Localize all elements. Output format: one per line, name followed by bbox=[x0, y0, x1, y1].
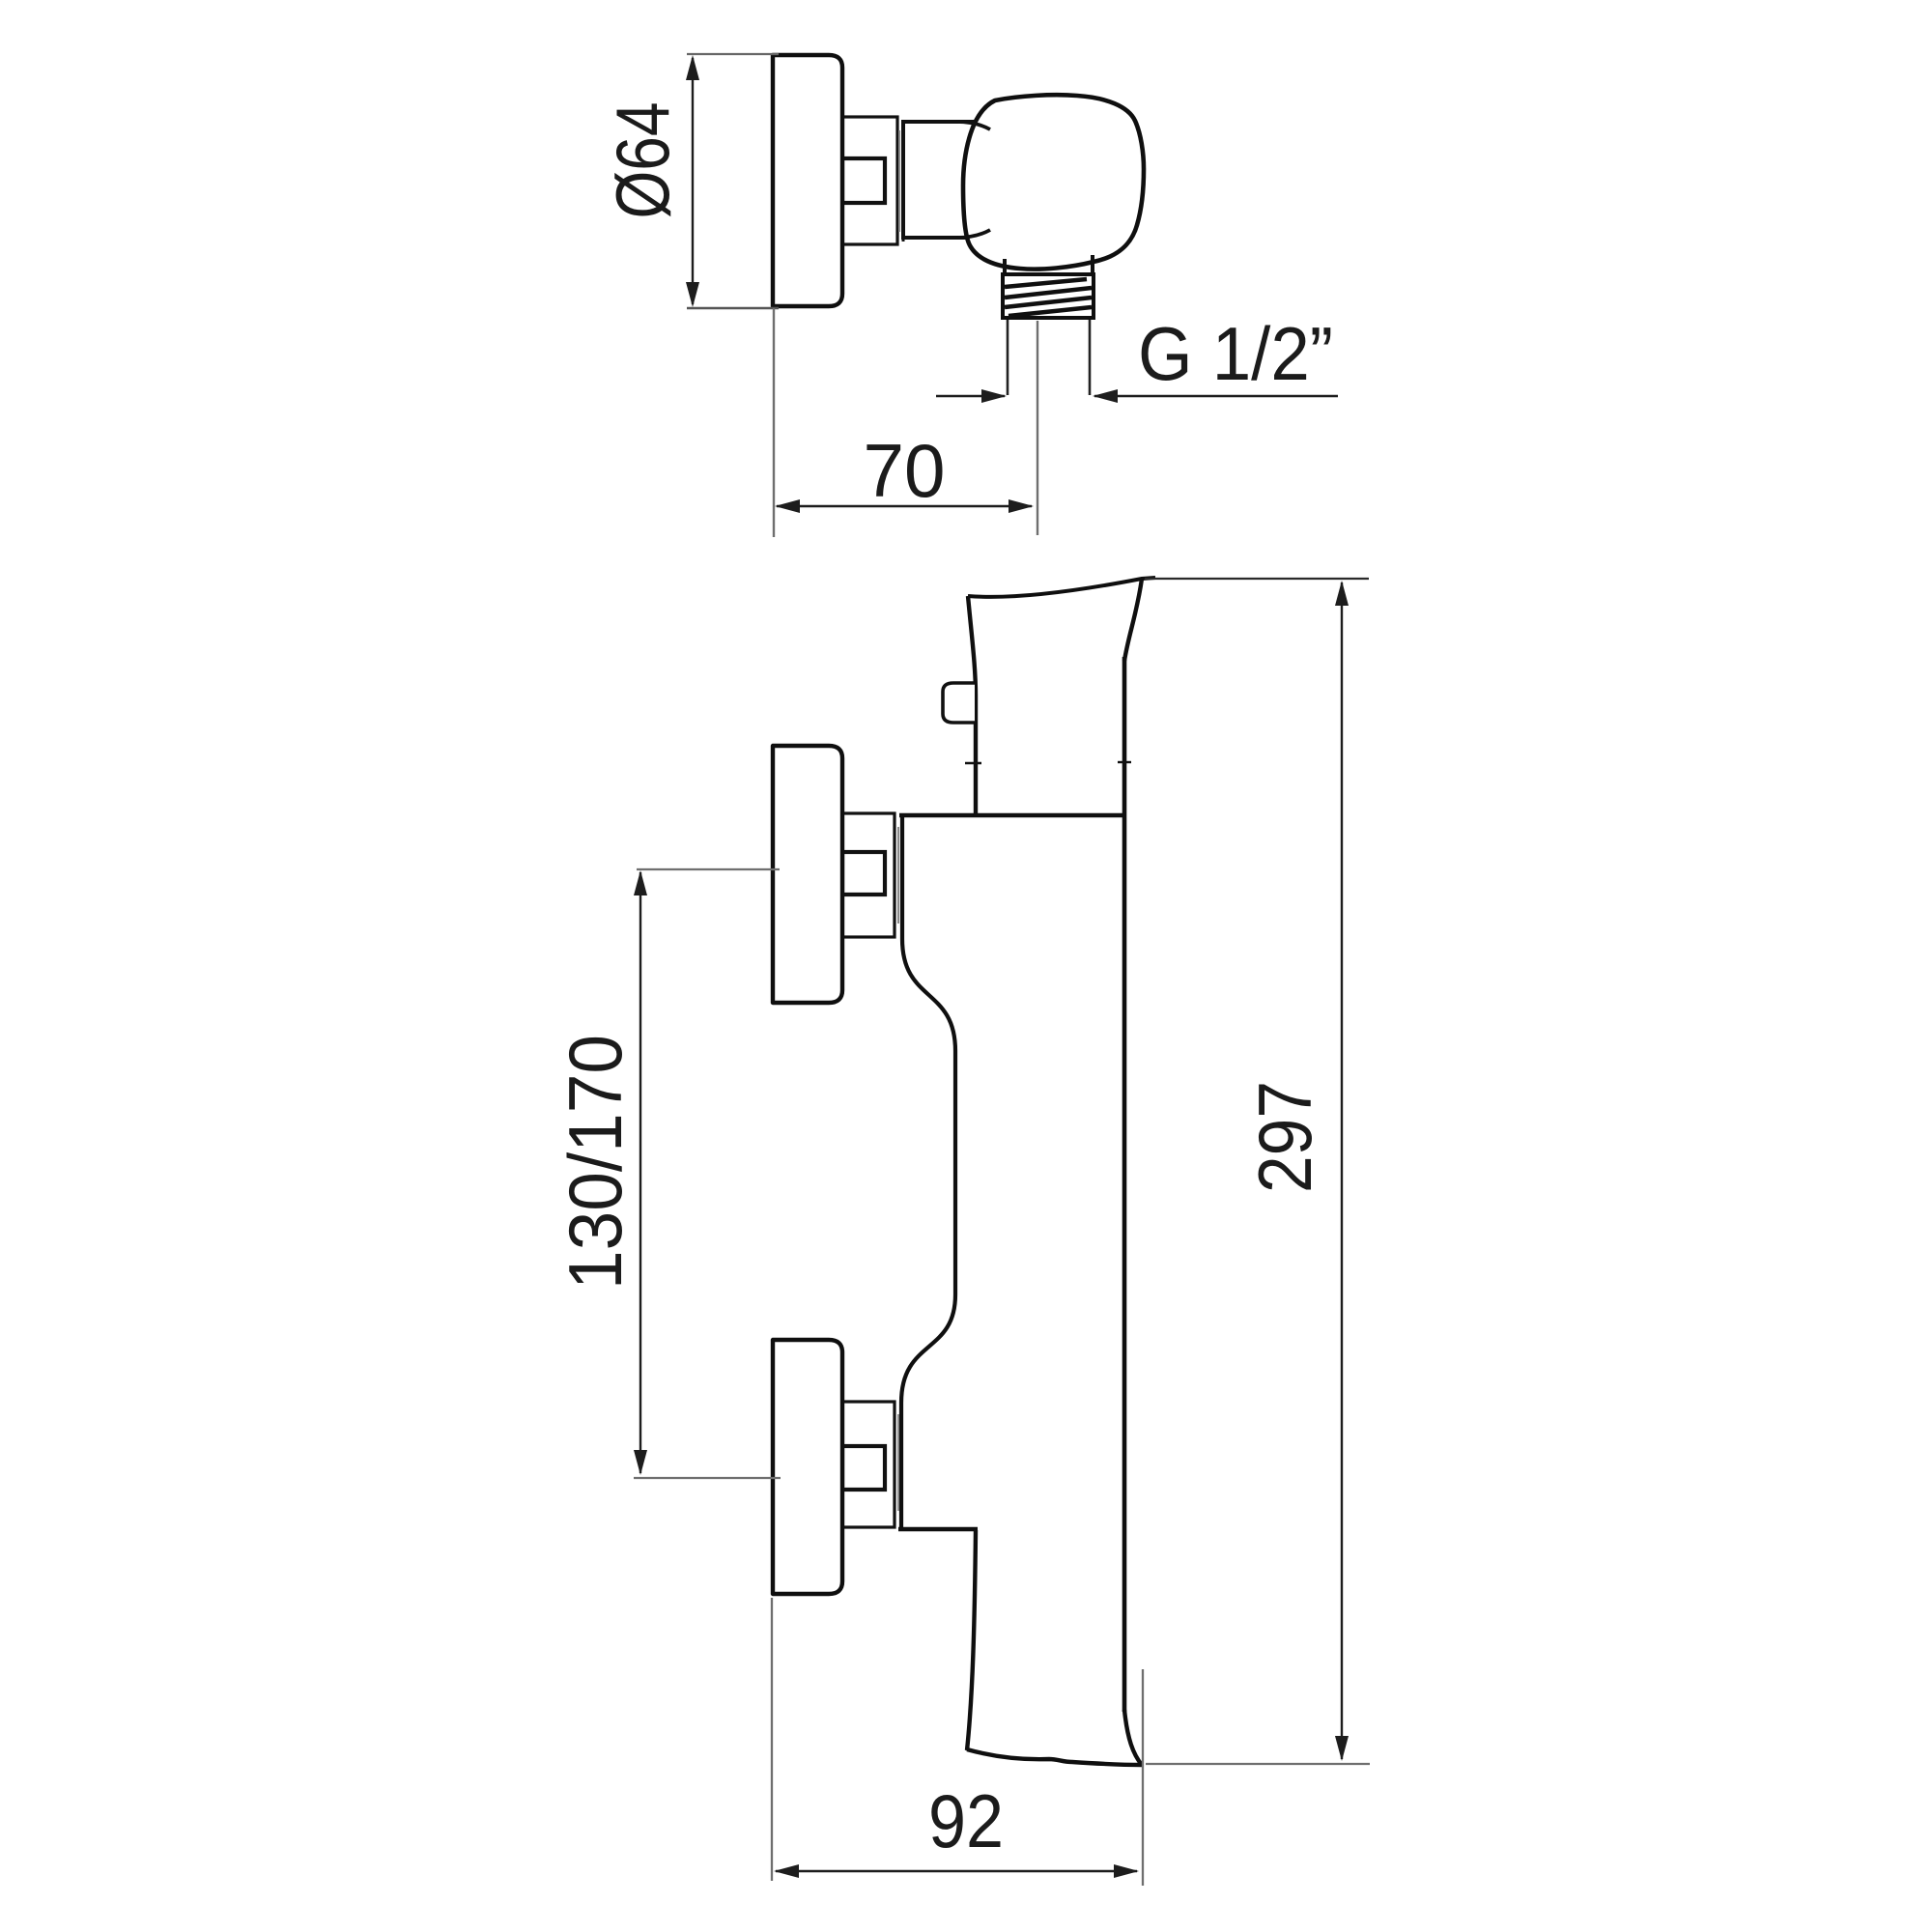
svg-text:G 1/2”: G 1/2” bbox=[1138, 311, 1333, 396]
svg-text:130/170: 130/170 bbox=[553, 1035, 638, 1290]
svg-text:70: 70 bbox=[864, 428, 946, 513]
svg-text:92: 92 bbox=[928, 1778, 1004, 1863]
svg-text:Ø64: Ø64 bbox=[600, 102, 685, 219]
svg-text:297: 297 bbox=[1242, 1081, 1327, 1193]
